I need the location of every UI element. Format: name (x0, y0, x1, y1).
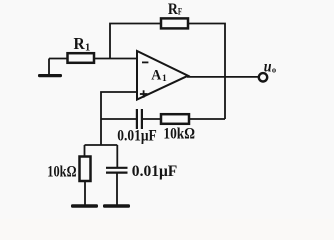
svg-text:1: 1 (162, 74, 167, 84)
capacitor C1 0.01uF (117, 109, 157, 145)
svg-text:10kΩ: 10kΩ (47, 164, 76, 181)
svg-text:u: u (264, 58, 272, 75)
ground (71, 204, 98, 207)
svg-text:R: R (168, 1, 178, 18)
svg-text:o: o (272, 64, 276, 74)
wire (142, 118, 161, 120)
op-amp A1 (137, 51, 188, 100)
svg-text:A: A (151, 67, 161, 83)
ground (103, 204, 130, 207)
svg-text:R: R (74, 34, 86, 53)
wire output (187, 76, 259, 78)
wire (49, 58, 68, 60)
wire non-inverting input (101, 92, 137, 145)
ground (38, 59, 62, 78)
resistor 10k shunt (47, 145, 90, 205)
wire feedback riser (110, 24, 161, 59)
resistor RF (161, 1, 188, 29)
wire series branch (101, 118, 136, 120)
wire RF to output branch (188, 24, 225, 120)
wire inverting input node (94, 58, 137, 60)
svg-text:10kΩ: 10kΩ (163, 126, 195, 143)
svg-text:1: 1 (85, 43, 90, 54)
resistor R1 (68, 34, 95, 63)
wire (189, 118, 225, 120)
capacitor C2 0.01uF shunt (106, 145, 178, 205)
wire bottom junction row (85, 144, 118, 146)
node uo output terminal (259, 58, 276, 81)
svg-text:0.01μF: 0.01μF (132, 163, 178, 180)
resistor 10k series (161, 114, 195, 142)
svg-text:F: F (178, 8, 182, 18)
svg-text:0.01μF: 0.01μF (117, 128, 157, 145)
